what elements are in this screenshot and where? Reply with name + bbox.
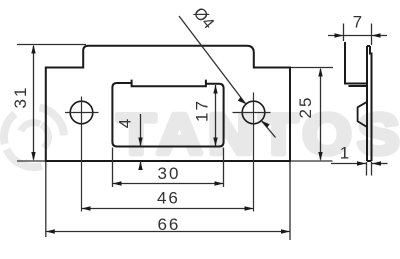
svg-text:7: 7 bbox=[353, 13, 364, 32]
svg-text:1: 1 bbox=[340, 144, 351, 163]
extension line bottom-left for dim 31 bbox=[17, 160, 45, 162]
dimension line 4 lower bbox=[140, 161, 142, 170]
arrowhead dim 30 right bbox=[215, 181, 224, 185]
watermark logo swirl bbox=[4, 108, 64, 168]
arrowhead dim 31 bottom bbox=[31, 152, 35, 161]
arrowhead leader diameter 4 upper bbox=[238, 97, 246, 104]
side view lip front edge bbox=[344, 42, 346, 85]
side view dimple bump bbox=[358, 102, 367, 127]
arrowhead dim 66 right bbox=[281, 229, 290, 233]
extension line right for dim 1 bbox=[371, 162, 373, 176]
extension line left for dim 1 bbox=[366, 162, 368, 176]
extension line right for dim 7 bbox=[371, 24, 373, 46]
leader line diameter 4 upper bbox=[179, 16, 246, 104]
dimension line 1 right tail bbox=[372, 163, 388, 165]
extension line cutout right edge bbox=[223, 148, 225, 188]
extension line plate right edge bbox=[289, 162, 291, 240]
svg-text:66: 66 bbox=[157, 215, 180, 234]
svg-text:30: 30 bbox=[158, 164, 181, 183]
centerline cross hole right bbox=[233, 93, 271, 212]
dimension line 1 left tail bbox=[331, 163, 366, 165]
arrowhead leader diameter 4 lower bbox=[262, 121, 270, 128]
extension line top for dim 25 bbox=[291, 67, 333, 69]
dimension line 31 bbox=[33, 46, 35, 160]
leader line diameter 4 lower bbox=[262, 121, 276, 138]
dimension line 66 bbox=[46, 231, 290, 233]
extension line cutout left edge bbox=[112, 148, 114, 188]
side view bar bottom cap bbox=[367, 160, 372, 162]
latch cutout top middle step bbox=[132, 80, 206, 87]
dimension line 17 bbox=[215, 85, 217, 146]
dimension line 4 upper bbox=[140, 114, 142, 147]
svg-text:46: 46 bbox=[157, 188, 180, 207]
dimension line 46 bbox=[82, 208, 254, 210]
arrowhead dim 25 bottom bbox=[318, 152, 322, 161]
arrowhead dim 17 top bbox=[213, 85, 217, 94]
svg-text:4: 4 bbox=[116, 117, 135, 128]
side view bar top cap bbox=[367, 45, 370, 47]
arrowhead dim 66 left bbox=[46, 229, 55, 233]
extension line plate left edge bbox=[45, 162, 47, 237]
extension line bottom for dim 25 bbox=[291, 160, 333, 162]
arrowhead dim 4 lower bbox=[138, 161, 142, 170]
latch cutout opening bbox=[112, 83, 223, 147]
extension line top for dim 31 bbox=[17, 44, 86, 46]
side view bar left edge bbox=[366, 46, 368, 161]
arrowhead dim 1 left bbox=[357, 161, 366, 165]
centerline cross hole left bbox=[65, 97, 99, 212]
svg-text:17: 17 bbox=[193, 99, 212, 122]
arrowhead dim 1 right bbox=[372, 161, 381, 165]
side view lip top line bbox=[345, 83, 367, 85]
arrowhead dim 4 upper bbox=[138, 138, 142, 147]
arrowhead dim 25 top bbox=[318, 68, 322, 77]
arrowhead dim 46 left bbox=[82, 206, 91, 210]
arrowhead dim 7 left bbox=[335, 33, 344, 37]
arrowhead dim 30 left bbox=[113, 181, 122, 185]
strike plate outline (front view) bbox=[46, 46, 290, 161]
dimension line 7 bbox=[328, 35, 387, 37]
arrowhead dim 31 top bbox=[31, 45, 35, 54]
side view lip inner line bbox=[349, 85, 368, 87]
watermark text TANTOS bbox=[117, 102, 400, 166]
screw hole left bbox=[70, 101, 93, 124]
side view bar right edge with step bbox=[370, 46, 372, 161]
svg-text:31: 31 bbox=[11, 86, 30, 109]
svg-text:25: 25 bbox=[296, 96, 315, 119]
extension line left for dim 7 bbox=[343, 24, 345, 42]
arrowhead dim 7 right bbox=[372, 33, 381, 37]
screw hole right bbox=[242, 101, 265, 124]
arrowhead dim 46 right bbox=[245, 206, 254, 210]
arrowhead dim 17 bottom bbox=[213, 138, 217, 147]
dimension line 25 bbox=[320, 69, 322, 160]
dimension line 30 bbox=[113, 183, 224, 185]
